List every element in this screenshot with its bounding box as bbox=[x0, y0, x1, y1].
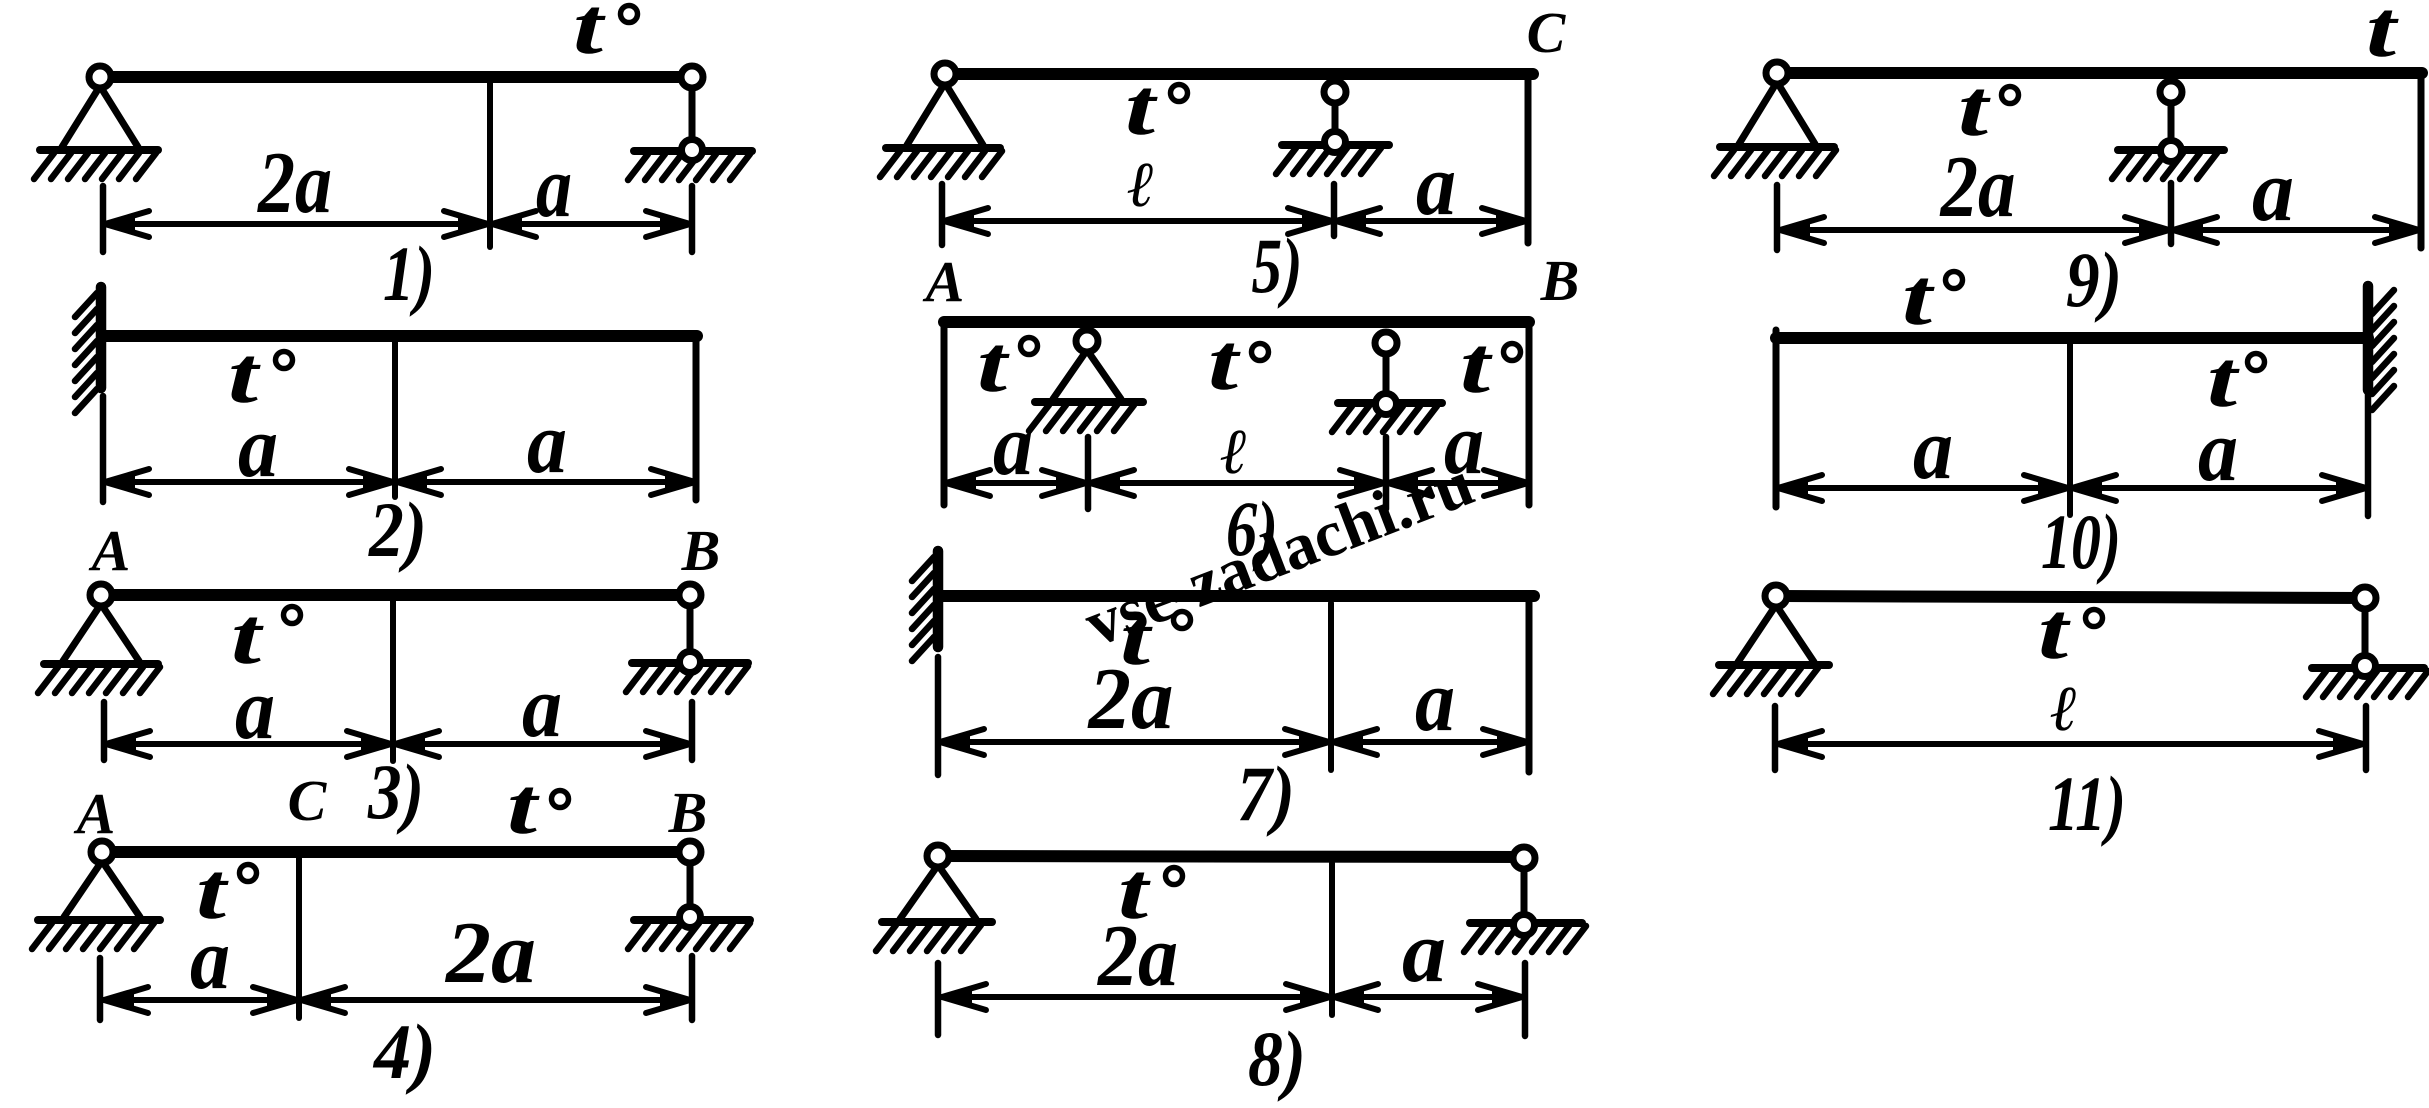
svg-text:5): 5) bbox=[1252, 222, 1303, 309]
svg-text:t: t bbox=[2366, 0, 2400, 74]
diagram 1: dimension a bbox=[492, 221, 690, 227]
svg-text:a: a bbox=[536, 139, 572, 236]
svg-text:2a: 2a bbox=[1087, 651, 1174, 748]
diagram 2: extension tick left bbox=[100, 396, 107, 502]
diagram 7: beam bbox=[941, 590, 1534, 602]
diagram 4: roller support right bbox=[687, 852, 694, 917]
diagram 5: dimension a bbox=[1336, 218, 1526, 224]
diagram 7: dimension 2a bbox=[940, 739, 1329, 745]
diagram 10: beam bbox=[1776, 332, 2368, 344]
diagram 7: section divider bbox=[1328, 603, 1334, 770]
diagram 11: dimension l bbox=[1778, 741, 2363, 747]
diagram 7: dimension a bbox=[1333, 739, 1527, 745]
svg-text:3): 3) bbox=[367, 748, 424, 835]
diagram 9: dimension a bbox=[2173, 227, 2419, 233]
svg-text:B: B bbox=[681, 518, 721, 583]
diagram 6: right end line bbox=[1526, 327, 1533, 505]
diagram 3: roller support right bbox=[687, 595, 694, 662]
diagram 7: fixed wall left bbox=[933, 551, 944, 647]
diagram 4: dimension a bbox=[104, 997, 297, 1003]
diagram 11: extension tick left bbox=[1772, 706, 1779, 770]
svg-text:a: a bbox=[190, 911, 230, 1008]
diagram 1: extension tick left bbox=[100, 186, 107, 252]
svg-text:t: t bbox=[1125, 64, 1159, 152]
diagram 6: beam bbox=[944, 316, 1529, 328]
diagram 8: pin support left bbox=[900, 865, 938, 919]
diagram 8: beam bbox=[938, 856, 1524, 857]
diagram 5: pin support left bbox=[907, 83, 945, 145]
svg-text:a: a bbox=[238, 399, 278, 496]
diagram 2: dimension a left bbox=[105, 479, 393, 485]
diagram 3: section divider bbox=[390, 601, 396, 761]
svg-text:11): 11) bbox=[2048, 760, 2126, 847]
svg-text:a: a bbox=[527, 395, 567, 492]
diagram 6: extension tick roller bbox=[1383, 437, 1390, 509]
svg-text:A: A bbox=[923, 249, 965, 314]
svg-text:2a: 2a bbox=[1939, 139, 2016, 236]
diagram 8: dimension a bbox=[1334, 994, 1522, 1000]
diagram 5: roller support middle bbox=[1332, 92, 1339, 142]
diagram 3: beam bbox=[101, 589, 690, 601]
svg-text:2a: 2a bbox=[1096, 908, 1178, 1005]
diagram 3: pin support left bbox=[63, 604, 101, 661]
svg-text:2a: 2a bbox=[444, 905, 536, 1002]
diagram 10: section divider bbox=[2067, 344, 2073, 515]
diagram 5: extension tick middle bbox=[1331, 184, 1338, 236]
diagram 6: dimension l bbox=[1090, 480, 1384, 486]
diagram 1: extension tick right bbox=[689, 186, 696, 252]
diagram 6: left end line bbox=[941, 327, 948, 505]
svg-text:a: a bbox=[1402, 904, 1446, 1001]
svg-text:2a: 2a bbox=[256, 135, 332, 232]
svg-text:10): 10) bbox=[2041, 498, 2121, 585]
diagram 3: dimension a left bbox=[106, 741, 391, 747]
diagram 8: roller support right bbox=[1521, 858, 1528, 925]
svg-text:t: t bbox=[1902, 254, 1936, 342]
diagram 2: right end line bbox=[693, 340, 700, 500]
diagram 9: roller support middle bbox=[2168, 92, 2175, 151]
diagram 4: extension tick left bbox=[97, 958, 104, 1020]
diagram 11: roller support right bbox=[2362, 598, 2369, 666]
svg-text:t: t bbox=[1208, 319, 1242, 407]
diagram 6: dimension a left bbox=[946, 480, 1086, 486]
diagram 9: dimension 2a bbox=[1780, 227, 2169, 233]
svg-text:C: C bbox=[1527, 0, 1567, 65]
svg-text:t: t bbox=[2038, 588, 2072, 676]
diagram 8: extension tick left bbox=[935, 963, 942, 1035]
svg-text:ℓ: ℓ bbox=[1220, 416, 1247, 487]
diagram 5: extension tick left bbox=[939, 184, 946, 245]
svg-text:A: A bbox=[89, 518, 131, 583]
svg-text:t: t bbox=[977, 321, 1011, 409]
diagram 1: roller support right bbox=[689, 77, 696, 150]
diagram 6: pin support middle bbox=[1053, 350, 1087, 399]
diagram 9: extension tick left bbox=[1774, 185, 1781, 250]
diagram 7: extension tick left bbox=[935, 657, 942, 775]
svg-text:B: B bbox=[668, 780, 708, 845]
diagram 4: beam bbox=[102, 846, 690, 858]
svg-text:7): 7) bbox=[1237, 750, 1295, 837]
svg-text:4): 4) bbox=[372, 1008, 436, 1095]
diagram 6: dimension a right bbox=[1388, 480, 1528, 486]
svg-text:a: a bbox=[1913, 401, 1953, 498]
diagram 9: right end line bbox=[2418, 78, 2425, 248]
svg-text:a: a bbox=[2252, 143, 2294, 240]
diagram 10: left end line bbox=[1773, 330, 1780, 507]
diagram 3: extension tick right bbox=[689, 702, 696, 760]
diagram 10: extension tick right bbox=[2365, 392, 2372, 516]
diagram 1: section divider bbox=[487, 82, 493, 247]
svg-text:1): 1) bbox=[383, 230, 435, 317]
diagram 4: dimension 2a bbox=[301, 997, 690, 1003]
svg-text:a: a bbox=[522, 659, 562, 756]
diagram 3: dimension a right bbox=[395, 741, 690, 747]
svg-text:a: a bbox=[993, 397, 1033, 494]
svg-text:A: A bbox=[74, 781, 116, 846]
diagram 1: dimension 2a bbox=[105, 221, 488, 227]
svg-text:9): 9) bbox=[2066, 236, 2122, 323]
svg-text:ℓ: ℓ bbox=[2050, 673, 2077, 744]
diagram 4: section divider bbox=[296, 857, 302, 1018]
diagram 3: extension tick left bbox=[101, 702, 108, 760]
diagram 6: roller support middle bbox=[1383, 343, 1390, 404]
diagram 8: extension tick right bbox=[1522, 963, 1529, 1036]
diagram 11: beam bbox=[1776, 596, 2365, 598]
diagram 9: extension tick middle bbox=[2168, 183, 2175, 244]
diagram 11: pin support left bbox=[1738, 605, 1776, 662]
diagram 2: beam bbox=[104, 330, 697, 342]
diagram 1: beam bbox=[100, 71, 692, 83]
diagram 4: pin support left bbox=[64, 861, 102, 917]
diagram 8: section divider bbox=[1329, 863, 1335, 1015]
diagram 2: dimension a right bbox=[397, 479, 695, 485]
diagram 11: extension tick right bbox=[2363, 706, 2370, 770]
diagram 10: fixed wall right bbox=[2363, 286, 2374, 390]
svg-text:8): 8) bbox=[1248, 1015, 1306, 1102]
diagram 4: extension tick right bbox=[689, 956, 696, 1020]
svg-text:a: a bbox=[235, 661, 275, 758]
svg-text:2): 2) bbox=[368, 486, 427, 573]
svg-text:B: B bbox=[1540, 248, 1580, 313]
svg-text:a: a bbox=[1415, 653, 1455, 750]
diagram 7: right end line bbox=[1526, 600, 1533, 772]
svg-text:t: t bbox=[573, 0, 607, 71]
diagram 2: section divider bbox=[392, 341, 398, 497]
diagram 1: pin support left bbox=[62, 86, 100, 147]
diagram 10: dimension a right bbox=[2072, 485, 2366, 491]
diagram 5: dimension l bbox=[944, 218, 1332, 224]
svg-text:a: a bbox=[2198, 403, 2238, 500]
diagram 5: beam bbox=[945, 68, 1533, 80]
diagram 9: beam bbox=[1777, 67, 2422, 79]
diagram 10: dimension a left bbox=[1778, 485, 2068, 491]
diagram 2: fixed wall left bbox=[96, 287, 107, 388]
diagram 6: extension tick pin bbox=[1085, 437, 1092, 509]
svg-text:t: t bbox=[507, 763, 541, 851]
diagram 5: right end line bbox=[1525, 79, 1532, 243]
diagram 9: pin support left bbox=[1739, 82, 1777, 144]
diagram 8: dimension 2a bbox=[942, 994, 1330, 1000]
svg-text:ℓ: ℓ bbox=[1127, 149, 1154, 220]
svg-text:C: C bbox=[288, 768, 328, 833]
